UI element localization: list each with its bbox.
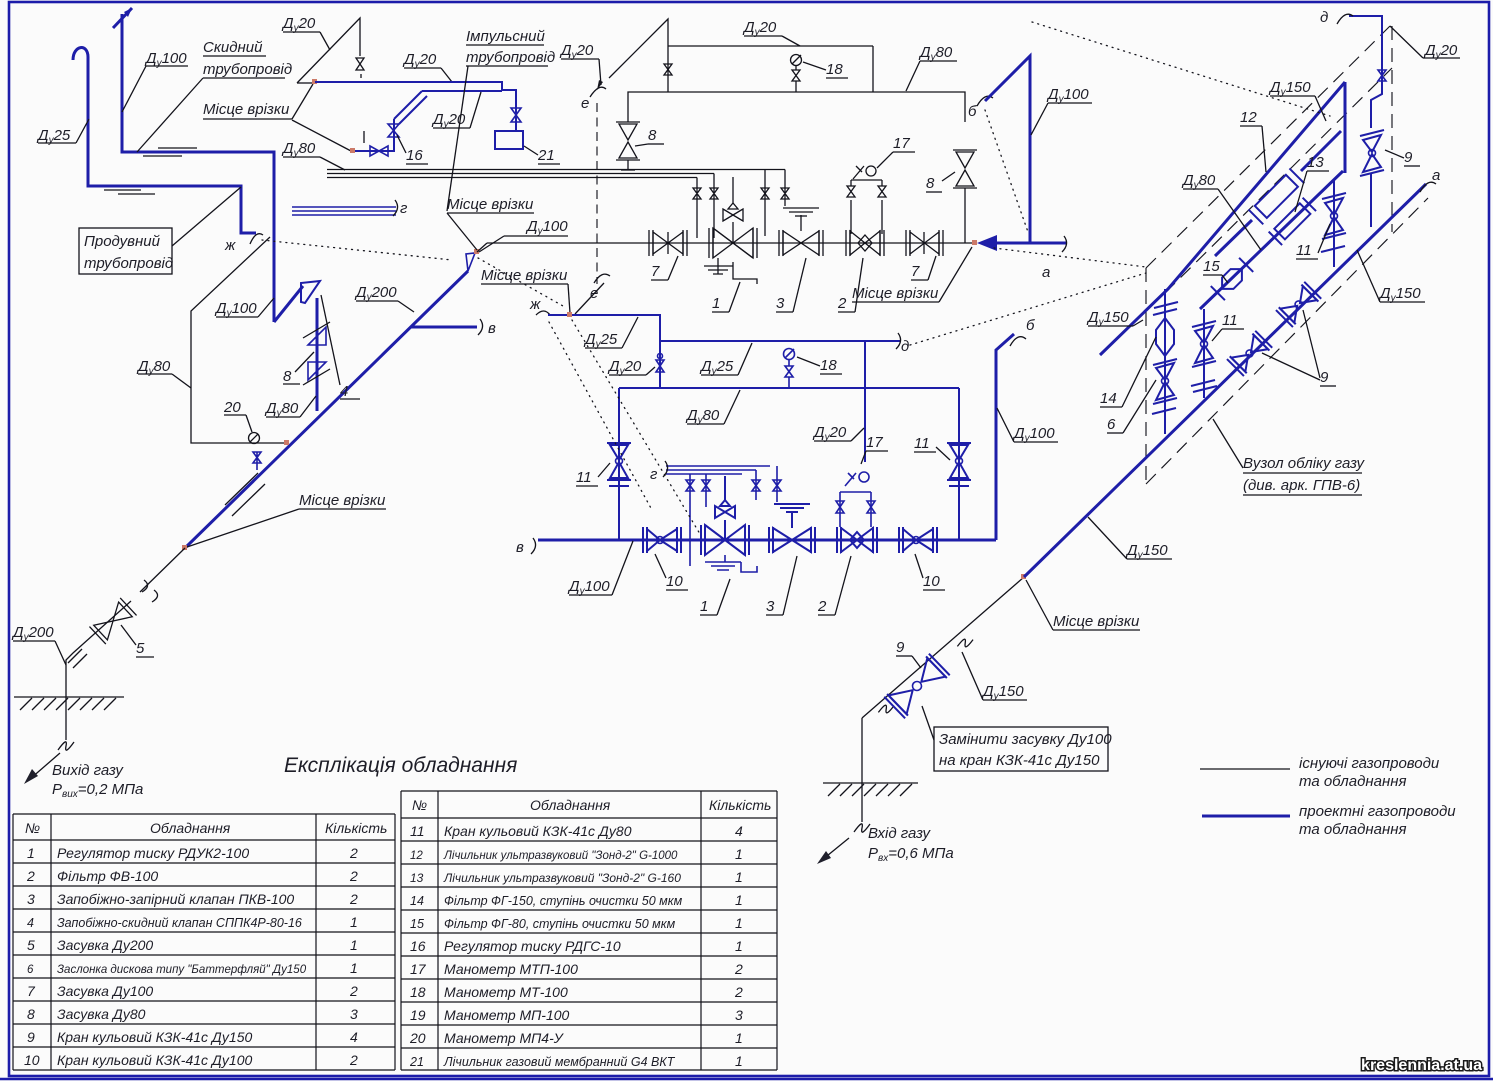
svg-text:4: 4 [340, 383, 348, 400]
purge pipeline hook D25 [73, 48, 256, 233]
svg-text:Манометр МП4-У: Манометр МП4-У [444, 1030, 565, 1046]
bundle risers blue [686, 466, 781, 566]
big diagonal D200 project [185, 271, 468, 548]
label D200 bottom [11, 624, 66, 665]
flag marker at vrizka top [466, 253, 475, 271]
gate valve 5 [89, 598, 136, 644]
label 18 no.1 [803, 61, 848, 78]
safety valve 4 connection [274, 281, 320, 411]
svg-text:б: б [968, 103, 977, 120]
label Misce vrizky 5 [852, 247, 972, 302]
blue impulse D20 top [315, 82, 516, 131]
insulation marks on D100 line [143, 148, 197, 156]
black impulse frame left [191, 237, 286, 443]
label D150 right [1357, 250, 1425, 304]
svg-text:7: 7 [651, 263, 660, 280]
label D25 no.1 [583, 317, 638, 350]
svg-text:8: 8 [926, 175, 935, 192]
svg-text:Засувка Ду200: Засувка Ду200 [57, 937, 153, 953]
svg-text:2: 2 [349, 983, 358, 999]
svg-text:Манометр МП-100: Манометр МП-100 [444, 1007, 570, 1023]
double diagonal to regulator 16 [394, 91, 502, 124]
ground hatch left [14, 697, 124, 710]
svg-text:в: в [488, 320, 496, 337]
label 15 [1203, 258, 1228, 283]
label 11 no.3 [1212, 312, 1244, 341]
svg-text:2: 2 [734, 961, 743, 977]
label 12 [1240, 109, 1266, 172]
label 8 riser [283, 352, 314, 385]
node a tick right [1420, 167, 1440, 192]
svg-text:трубопровід: трубопровід [84, 255, 173, 272]
red dot vrizka inlet [1021, 574, 1026, 579]
svg-text:Ду80: Ду80 [685, 407, 720, 426]
line B horizontal [628, 92, 965, 122]
svg-text:(див. арк. ГПВ-6): (див. арк. ГПВ-6) [1243, 477, 1360, 494]
svg-text:Ду80: Ду80 [1181, 172, 1216, 191]
flange ticks on main diag [1158, 428, 1174, 444]
label 11 no.2 [914, 435, 950, 460]
label box: Produvnyi truboprovid [79, 187, 241, 274]
svg-text:Ду100: Ду100 [1012, 425, 1055, 444]
svg-text:5: 5 [27, 937, 35, 953]
svg-text:2: 2 [349, 891, 358, 907]
svg-text:існуючі газопроводи: існуючі газопроводи [1299, 755, 1440, 772]
svg-text:Ду80: Ду80 [264, 400, 299, 419]
label D20 impulse [431, 92, 481, 130]
label D150 unit top [1268, 79, 1326, 121]
svg-text:4: 4 [350, 1029, 358, 1045]
svg-text:9: 9 [896, 639, 905, 656]
svg-text:21: 21 [537, 147, 555, 164]
label 20 [223, 399, 252, 432]
svg-text:Обладнання: Обладнання [530, 797, 611, 813]
svg-text:2: 2 [817, 598, 827, 615]
riser 11a [1191, 309, 1217, 398]
svg-text:2: 2 [837, 295, 847, 312]
impulse risers to line [693, 170, 789, 239]
svg-text:Ду200: Ду200 [354, 284, 397, 303]
svg-text:Ду20: Ду20 [812, 424, 847, 443]
gauge 18 no.2 [784, 349, 795, 389]
riser 14/6 left [1152, 289, 1178, 434]
label box: Impulsnyi truboprovid [466, 28, 555, 66]
main project diagonal D150 [1024, 184, 1426, 577]
valve 3 no.2 blue [769, 504, 815, 553]
D20 tap triangle top-left [297, 18, 364, 83]
svg-text:Кількість: Кількість [709, 797, 771, 813]
svg-text:Місце врізки: Місце врізки [1053, 613, 1140, 630]
svg-text:7: 7 [911, 263, 920, 280]
svg-text:20: 20 [409, 1030, 426, 1046]
valve 8 break symbol on riser [303, 322, 330, 385]
blue b connector [985, 56, 1030, 243]
svg-text:1: 1 [735, 869, 743, 885]
label 1 [712, 282, 740, 312]
svg-text:3: 3 [27, 891, 35, 907]
dashed boundary [1146, 26, 1428, 484]
svg-text:7: 7 [27, 983, 36, 999]
svg-text:1: 1 [700, 598, 708, 615]
svg-text:Місце врізки: Місце врізки [481, 267, 568, 284]
section dashed line e [596, 103, 598, 284]
svg-text:Ду20: Ду20 [607, 358, 642, 377]
svg-text:Місце врізки: Місце врізки [203, 101, 290, 118]
svg-text:Вузол обліку газу: Вузол обліку газу [1243, 455, 1365, 472]
D80 blue line [619, 387, 959, 389]
svg-text:Ду150: Ду150 [1125, 542, 1168, 561]
svg-text:11: 11 [914, 435, 930, 452]
svg-text:Вихід газу: Вихід газу [52, 762, 124, 779]
svg-text:е: е [581, 95, 589, 112]
svg-text:1: 1 [27, 845, 35, 861]
insulation marks on diagonal [225, 473, 265, 516]
svg-text:1: 1 [735, 1030, 743, 1046]
discharge pipeline D100 [113, 8, 274, 322]
label Misce vrizky 4 (lower diag) [187, 492, 386, 547]
svg-text:Кількість: Кількість [325, 820, 387, 836]
label 1 no.2 [700, 579, 730, 615]
blue bundle left with node g [292, 200, 408, 217]
small blue valve below mano line [253, 452, 261, 470]
flange pair on lower diag [68, 649, 87, 668]
ball valve 10 no.2 [899, 527, 937, 553]
svg-text:Ду100: Ду100 [525, 218, 568, 237]
shutoff valve 3 (PKV-100) [779, 208, 823, 256]
existing D200 diagonal down [66, 548, 185, 697]
node d tick top [1320, 9, 1353, 26]
gas outlet arrow [24, 753, 60, 784]
label D80 no.3 [685, 390, 740, 426]
collector right riser to b [996, 317, 1035, 540]
section mark e bottom [575, 274, 610, 314]
svg-text:ж: ж [529, 296, 541, 313]
svg-text:17: 17 [410, 961, 427, 977]
label D80 top right [906, 44, 957, 91]
label D100 mid-left [214, 298, 274, 319]
svg-text:2: 2 [349, 1052, 358, 1068]
label 7 no.1 [651, 256, 678, 280]
existing diagonal to vrizka [862, 577, 1024, 718]
svg-text:2: 2 [26, 868, 35, 884]
svg-text:а: а [1042, 264, 1050, 281]
svg-text:11: 11 [410, 823, 425, 839]
svg-text:1: 1 [735, 846, 743, 862]
manometer 17 no.2 assembly [836, 472, 875, 527]
svg-text:3: 3 [735, 1007, 743, 1023]
svg-text:8: 8 [27, 1006, 35, 1022]
svg-text:18: 18 [826, 61, 843, 78]
svg-text:8: 8 [648, 127, 657, 144]
underground pipe + break [58, 697, 74, 750]
gas meter 21 box [495, 131, 523, 149]
label 10 no.1 [655, 554, 688, 590]
svg-text:10: 10 [923, 573, 940, 590]
riser 11b [1321, 180, 1346, 267]
ball valves 9 pair on main diag [1227, 331, 1272, 376]
label D100 right [1031, 86, 1092, 135]
label Misce vrizky 6 [1026, 580, 1140, 630]
label 8 no.1 [635, 127, 664, 146]
filter 2 (FV-100) [846, 230, 884, 256]
svg-text:Ду25: Ду25 [699, 358, 734, 377]
label 3 [776, 258, 806, 312]
node zh tick 1 [224, 234, 263, 254]
label D20 top left [559, 42, 603, 90]
manometer 20 [249, 433, 260, 444]
ball valve 9a on riser [1360, 130, 1384, 227]
label 7 no.2 [911, 256, 936, 280]
red dot vrizka mid [567, 312, 572, 317]
node v tick collector start [516, 538, 536, 556]
D25 impulse line 2 to node d [660, 333, 909, 355]
label D100 collector left [567, 541, 633, 597]
project line to node a [997, 236, 1067, 281]
gas inlet text [868, 825, 954, 864]
svg-text:15: 15 [1203, 258, 1220, 275]
unit label [1213, 419, 1365, 495]
label 11 no.1 [576, 463, 610, 486]
svg-text:4: 4 [27, 916, 34, 930]
label box: Skydnyi truboprovid [137, 39, 292, 152]
label D150 on main diag low [1088, 517, 1172, 561]
svg-text:Ду100: Ду100 [214, 300, 257, 319]
svg-text:Ду80: Ду80 [281, 140, 316, 159]
label 2 no.2 [817, 556, 851, 615]
svg-text:12: 12 [410, 850, 423, 862]
svg-text:Фільтр ФГ-150, ступінь очистки: Фільтр ФГ-150, ступінь очистки 50 мкм [444, 894, 683, 908]
svg-text:Ду20: Ду20 [402, 51, 437, 70]
label Misce vrizky 1 [203, 84, 351, 151]
rail A top D150 [1100, 82, 1345, 355]
svg-text:та обладнання: та обладнання [1299, 773, 1407, 790]
counter 13 on rail B [1269, 198, 1316, 245]
collector main blue line [538, 539, 996, 542]
svg-text:Запобіжно-скидний клапан СППК4: Запобіжно-скидний клапан СППК4Р-80-16 [57, 916, 302, 930]
svg-text:13: 13 [410, 871, 424, 885]
gas outlet text [52, 762, 143, 800]
svg-text:Ду200: Ду200 [11, 624, 54, 643]
svg-text:10: 10 [666, 573, 683, 590]
label D100 on main line [479, 218, 568, 252]
svg-text:б: б [1026, 317, 1035, 334]
svg-text:kreslennia.at.ua: kreslennia.at.ua [1361, 1057, 1482, 1074]
filter 2 no.2 blue [837, 527, 877, 553]
label D200 upper [354, 284, 414, 312]
red dot impulse start [312, 79, 317, 84]
svg-text:Імпульсний: Імпульсний [466, 28, 545, 45]
svg-text:16: 16 [410, 938, 426, 954]
svg-text:та обладнання: та обладнання [1299, 821, 1407, 838]
ground hatch middle [823, 783, 918, 796]
label 11 no.4 [1296, 224, 1330, 259]
svg-text:Замінити засувку Ду100: Замінити засувку Ду100 [939, 731, 1112, 748]
svg-text:Фільтр ФВ-100: Фільтр ФВ-100 [57, 868, 158, 884]
svg-text:Засувка Ду80: Засувка Ду80 [57, 1006, 146, 1022]
label box: Zaminyty zasuvku [922, 706, 1112, 771]
ball valve 10 no.1 [643, 527, 681, 553]
svg-text:№: № [412, 797, 427, 813]
svg-text:9: 9 [27, 1029, 35, 1045]
vent valve 8 no.1 [616, 122, 640, 170]
svg-text:1: 1 [350, 914, 358, 930]
vent bracket below regulator 1 [704, 258, 757, 284]
label D80 unit [1181, 172, 1261, 250]
impulse bundle black [327, 170, 785, 178]
svg-text:Обладнання: Обладнання [150, 820, 231, 836]
D20 riser top right [1349, 16, 1386, 128]
label D150 inlet [962, 652, 1027, 702]
svg-text:5: 5 [136, 640, 145, 657]
regulator 1 no.2 blue [701, 476, 749, 555]
label D20 far top-left [281, 15, 330, 50]
svg-text:1: 1 [735, 938, 743, 954]
svg-text:трубопровід: трубопровід [466, 49, 555, 66]
manometer 18 no.1 [791, 55, 802, 93]
svg-text:Регулятор тиску РДГС-10: Регулятор тиску РДГС-10 [444, 938, 621, 954]
svg-text:Місце врізки: Місце врізки [852, 285, 939, 302]
label D80 for bundle [281, 140, 345, 170]
label 5 [121, 625, 154, 657]
svg-text:10: 10 [24, 1052, 40, 1068]
svg-text:6: 6 [27, 964, 34, 976]
main existing pipeline D100 [487, 242, 975, 244]
label 2 [837, 258, 863, 312]
svg-text:Регулятор тиску РДУК2-100: Регулятор тиску РДУК2-100 [57, 845, 249, 861]
regulator 16 piping [353, 119, 399, 156]
riser 11 no.2 [947, 388, 971, 540]
svg-text:Засувка Ду100: Засувка Ду100 [57, 983, 153, 999]
svg-text:9: 9 [1404, 149, 1413, 166]
label D20 no.4 [812, 424, 864, 443]
red dot vrizka main [474, 249, 479, 254]
label D25 [36, 119, 89, 146]
svg-text:Ду150: Ду150 [981, 683, 1024, 702]
svg-text:Запобіжно-запірний клапан ПКВ-: Запобіжно-запірний клапан ПКВ-100 [57, 891, 294, 907]
svg-text:Кран кульовий КЗК-41с Ду80: Кран кульовий КЗК-41с Ду80 [444, 823, 632, 839]
svg-text:12: 12 [1240, 109, 1257, 126]
svg-text:19: 19 [410, 1007, 426, 1023]
svg-text:2: 2 [349, 868, 358, 884]
svg-text:1: 1 [735, 892, 743, 908]
svg-text:Скидний: Скидний [203, 39, 263, 56]
vent bracket below regulator blue [705, 555, 757, 572]
label 18 no.2 [797, 357, 842, 374]
svg-text:20: 20 [223, 399, 241, 416]
node b tick top [968, 96, 993, 120]
svg-text:Заслонка дискова типу "Баттерф: Заслонка дискова типу "Баттерфляй" Ду150 [57, 964, 307, 976]
svg-text:11: 11 [1296, 242, 1312, 259]
rail B middle [1200, 171, 1343, 309]
label D100 collector right [997, 408, 1058, 444]
svg-text:трубопровід: трубопровід [203, 61, 292, 78]
label D80 left [136, 358, 191, 388]
svg-text:Лічильник газовий мембранний G: Лічильник газовий мембранний G4 ВКТ [443, 1055, 676, 1069]
leader from impulse box [447, 66, 468, 211]
dotted removed lines [262, 22, 1330, 534]
insulation marks on D25 line [104, 190, 155, 194]
svg-text:2: 2 [349, 845, 358, 861]
svg-text:в: в [516, 539, 524, 556]
label 6 [1107, 380, 1156, 433]
label 3 no.2 [766, 556, 797, 615]
svg-text:Ду100: Ду100 [567, 578, 610, 597]
svg-text:д: д [901, 338, 909, 355]
svg-text:Місце врізки: Місце врізки [299, 492, 386, 509]
label 9 no.2 [1262, 310, 1336, 386]
red dot lower diag [182, 545, 187, 550]
svg-text:6: 6 [1107, 416, 1116, 433]
svg-text:Манометр МТП-100: Манометр МТП-100 [444, 961, 578, 977]
valve 8 no.2 right riser [953, 150, 977, 243]
svg-text:14: 14 [410, 894, 424, 908]
label D20 no.3 [607, 358, 655, 377]
svg-text:а: а [1432, 167, 1440, 184]
svg-text:1: 1 [735, 1053, 743, 1069]
svg-text:Манометр МТ-100: Манометр МТ-100 [444, 984, 568, 1000]
break and inlet arrow [817, 824, 870, 864]
watermark [1361, 1057, 1482, 1074]
blue impulse bundle over regulator [650, 461, 770, 483]
gate valve 7 no.1 [649, 230, 687, 256]
svg-text:13: 13 [1307, 154, 1324, 171]
riser D20 x865 [864, 341, 866, 462]
label 9 no.1 [1385, 149, 1420, 166]
existing riser from ground [861, 718, 863, 822]
svg-text:8: 8 [283, 368, 292, 385]
svg-text:г: г [400, 200, 408, 217]
svg-text:1: 1 [350, 960, 358, 976]
svg-text:11: 11 [1222, 312, 1238, 329]
svg-text:Лічильник ультразвуковий "Зонд: Лічильник ультразвуковий "Зонд-2" G-1000 [443, 850, 678, 862]
label 17 no.2 [861, 434, 888, 464]
label 10 no.2 [915, 554, 945, 590]
mini valve on riser x660 [656, 354, 664, 373]
svg-text:Вхід газу: Вхід газу [868, 825, 932, 842]
svg-text:Ду20: Ду20 [742, 19, 777, 38]
D25 impulse line 1 [529, 296, 660, 388]
regulator 1 (RDUK2-100) [709, 177, 757, 258]
label 16 [397, 135, 428, 164]
svg-text:Ду150: Ду150 [1268, 79, 1311, 98]
mini valve on riser to meter [511, 108, 521, 122]
svg-text:Ду20: Ду20 [559, 42, 594, 61]
svg-text:1: 1 [712, 295, 720, 312]
label 14 [1100, 337, 1156, 407]
label 4 [321, 295, 360, 400]
line A D20 impulse top [609, 19, 873, 92]
vertical x1345 [1344, 82, 1347, 173]
svg-text:18: 18 [820, 357, 837, 374]
ball valve 9 replacement (blue) [884, 654, 949, 719]
leader dot to line [477, 243, 487, 252]
svg-text:1: 1 [735, 915, 743, 931]
svg-text:3: 3 [350, 1006, 358, 1022]
svg-text:Експлікація обладнання: Експлікація обладнання [284, 754, 517, 777]
manometer 17 assembly over filter [847, 166, 886, 234]
mini valve on riser [664, 64, 672, 75]
label 8 no.2 [926, 172, 955, 192]
svg-text:Продувний: Продувний [84, 233, 161, 250]
svg-text:21: 21 [409, 1055, 424, 1069]
section mark e top [581, 87, 606, 112]
red dot at arrow [972, 240, 977, 245]
svg-text:9: 9 [1320, 369, 1329, 386]
svg-text:3: 3 [776, 295, 785, 312]
svg-text:г: г [650, 466, 658, 483]
svg-text:Лічильник ультразвуковий "Зонд: Лічильник ультразвуковий "Зонд-2" G-160 [443, 871, 681, 885]
svg-text:14: 14 [1100, 390, 1117, 407]
